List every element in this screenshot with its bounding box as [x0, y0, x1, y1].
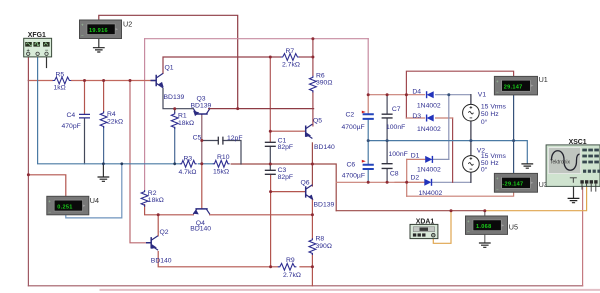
svg-text:R5: R5 [56, 71, 65, 78]
wire scope ground stub [573, 187, 575, 198]
wire D3 AC2 column x452.6 [452, 118, 454, 182]
voltmeter U5 [466, 216, 508, 234]
wire pink highlight bottom [101, 289, 600, 291]
wire D3 left end [406, 117, 424, 119]
voltmeter U4 [47, 196, 89, 215]
transistor Q1 [151, 73, 164, 87]
transistor Q2 [146, 236, 158, 250]
wire D1 cathode column x448.8 [448, 95, 450, 160]
svg-text:22kΩ: 22kΩ [107, 118, 123, 125]
wire output column top Q5 emitter to Q6 collector [311, 143, 313, 186]
svg-text:−: − [496, 187, 499, 192]
svg-text:R8: R8 [316, 236, 325, 243]
capacitor C5 [218, 137, 223, 145]
wire V2 top stub [470, 141, 472, 155]
wire U4 feed red [28, 175, 65, 197]
svg-text:−: − [467, 229, 470, 234]
capacitor C8 [382, 164, 393, 169]
wire C6 top lead [367, 141, 369, 165]
svg-text:XSC1: XSC1 [569, 139, 587, 146]
transistor Q3 rotated [193, 109, 209, 115]
wire R6R7 column x312.9 [312, 39, 314, 76]
wire C4 drop [84, 81, 86, 114]
svg-text:2.7kΩ: 2.7kΩ [282, 62, 300, 69]
wire R1 bottom lead [174, 127, 176, 164]
resistor R1 [171, 112, 178, 129]
svg-text:82pF: 82pF [278, 174, 294, 181]
wire Q3 base stem x201.8 [201, 115, 203, 164]
ground on bus [98, 177, 110, 181]
wire C2 bottom lead [367, 120, 369, 141]
wire Q5 base line y131.2 [270, 130, 305, 132]
wire U2 ground stub [98, 39, 100, 48]
diode D3 [427, 115, 434, 122]
wire bottom feedback y285.8 [28, 285, 582, 287]
svg-text:C4: C4 [67, 112, 76, 119]
svg-text:1N4002: 1N4002 [417, 167, 441, 174]
wire V1 top stub [470, 95, 472, 105]
capacitor C3 [265, 170, 276, 174]
svg-text:BD139: BD139 [314, 202, 335, 209]
wire Q6 emitter down to R8 [311, 199, 313, 239]
resistor R4 [100, 111, 107, 128]
wire U3 minus line y196.2 [407, 192, 514, 196]
wire output line orange segment [485, 186, 587, 211]
svg-text:+: + [48, 199, 51, 204]
wire C8 top lead [386, 141, 388, 164]
wire D1 right to column [432, 158, 448, 160]
svg-text:D2: D2 [411, 175, 420, 182]
svg-text:+: + [496, 176, 499, 181]
svg-text:4.7kΩ: 4.7kΩ [179, 169, 197, 176]
svg-text:0.251: 0.251 [57, 204, 72, 210]
svg-text:470pF: 470pF [62, 123, 81, 130]
wire U1 bottom to center tap [513, 95, 515, 141]
diode D2 [424, 179, 431, 186]
wire D4 anode to V1 top [436, 94, 471, 96]
svg-text:+: + [467, 219, 470, 224]
ground U5 [479, 243, 491, 247]
wire D2 cathode to V2 bottom [432, 181, 471, 183]
svg-text:Q2: Q2 [160, 229, 169, 236]
wire input line y80.5 [28, 80, 52, 82]
svg-text:12pF: 12pF [227, 135, 243, 142]
svg-text:18kΩ: 18kΩ [178, 120, 194, 127]
resistor R7 [281, 54, 300, 61]
diode D1 [425, 156, 432, 163]
resistor R9 [278, 263, 297, 270]
svg-text:R2: R2 [148, 190, 157, 197]
diode D4 [427, 91, 434, 98]
svg-text:U4: U4 [90, 196, 99, 205]
svg-text:BD140: BD140 [314, 144, 335, 151]
wire Q6 base line y191.6 [271, 191, 306, 193]
svg-text:XDA1: XDA1 [416, 219, 435, 226]
ground under U2 [93, 48, 105, 52]
wire XFG minus stub [46, 55, 48, 67]
wire Q4 base stem x201.8 [201, 164, 203, 209]
wire R9 right to R8 bottom [300, 266, 312, 268]
svg-text:19.916: 19.916 [89, 28, 108, 34]
svg-text:BD140: BD140 [151, 258, 172, 265]
resistor R10 [213, 160, 230, 167]
wire C7 top lead [386, 95, 388, 114]
svg-text:15kΩ: 15kΩ [213, 168, 229, 175]
resistor R2 [141, 190, 148, 207]
wire C2 top lead [367, 95, 369, 115]
wire D1 anode down to U3 line [406, 159, 408, 196]
wire output line y210.7 [336, 210, 485, 212]
svg-text:R4: R4 [107, 111, 116, 118]
distortion analyzer XDA1 [410, 224, 438, 238]
wire C8 bottom lead [386, 169, 388, 183]
wire U4 return blue [66, 164, 122, 218]
wire Q2 collector stub [157, 215, 159, 236]
wire Q4 right line to Q6 emitter [210, 214, 313, 216]
svg-text:R3: R3 [184, 156, 193, 163]
wire Q2 base feed x130 [130, 81, 151, 243]
voltmeter U3 [494, 173, 537, 192]
svg-text:Q5: Q5 [313, 117, 322, 124]
svg-text:18kΩ: 18kΩ [148, 197, 164, 204]
ground scope [568, 198, 580, 202]
resistor R8 [309, 238, 316, 255]
svg-text:50 Hz: 50 Hz [481, 111, 499, 118]
svg-text:D1: D1 [411, 152, 420, 159]
ground center tap [521, 164, 533, 168]
wire R8 bottom to bottom rail [311, 254, 313, 286]
svg-text:BD139: BD139 [164, 94, 185, 101]
wire R6 bottom to rail [312, 91, 314, 126]
svg-text:Tektronix: Tektronix [550, 160, 571, 166]
wire C5 left lead [202, 140, 218, 142]
wire C4 bottom lead [84, 119, 86, 164]
wire V2 bottom stub [470, 173, 472, 182]
svg-text:U1: U1 [539, 75, 548, 84]
source V2 [463, 156, 480, 173]
voltmeter U2 [80, 20, 122, 39]
svg-text:0°: 0° [481, 165, 488, 173]
svg-text:2.7kΩ: 2.7kΩ [283, 272, 301, 279]
svg-text:4700µF: 4700µF [342, 172, 365, 179]
wire C7 bottom lead [386, 118, 388, 140]
wire R4 bottom lead [103, 127, 105, 164]
wire input line right of R5 [71, 80, 155, 82]
wire D3 right to column [436, 117, 453, 119]
svg-text:R7: R7 [286, 48, 295, 55]
svg-text:D3: D3 [412, 113, 421, 120]
wire Q3 collector rail y108.6 [209, 108, 314, 110]
svg-text:R1: R1 [178, 113, 187, 120]
wire D1 line [407, 158, 425, 160]
wire bus R3 to R10 [198, 163, 213, 165]
wire XFG plus stub [27, 55, 29, 80]
wire Q2 emitter to R9 y266.8 [158, 252, 278, 267]
transistor Q4 rotated [193, 209, 209, 215]
transistor Q5 [306, 124, 313, 138]
wire +rail drop to C2 x368.2 [367, 39, 369, 95]
wire R2 bottom to Q4 base y214.8 [145, 205, 194, 215]
wire U5 bottom stub [484, 234, 486, 242]
capacitor C1 [265, 142, 276, 146]
wire bus right of R10 to corner [231, 164, 336, 211]
wire R4 drop [103, 81, 105, 112]
wire R1 top stub [174, 109, 176, 113]
wire U5 top stub [484, 211, 486, 216]
svg-text:BD139: BD139 [191, 102, 212, 109]
resistor R6 [310, 76, 317, 93]
svg-text:D4: D4 [412, 88, 421, 95]
voltmeter U1 [494, 76, 537, 95]
function generator XFG1 [24, 38, 52, 57]
svg-text:U5: U5 [509, 222, 518, 231]
capacitor C2 polarized [362, 111, 374, 119]
svg-text:−: − [48, 209, 51, 214]
svg-text:82pF: 82pF [278, 144, 294, 151]
wire Q1 emitter to Q3 y108.7 [163, 89, 193, 109]
svg-text:1N4002: 1N4002 [417, 103, 441, 110]
svg-text:XFG1: XFG1 [28, 32, 46, 39]
source V1 [463, 104, 480, 121]
svg-text:R10: R10 [217, 154, 230, 161]
resistor R3 [180, 160, 197, 167]
svg-text:100nF: 100nF [389, 151, 408, 158]
wire D2 left end [395, 181, 424, 183]
svg-text:R9: R9 [286, 257, 295, 264]
wire V1 bottom stub [470, 121, 472, 141]
svg-text:390Ω: 390Ω [316, 243, 332, 250]
svg-text:+: + [81, 23, 84, 28]
wire left feedback x28.4 [27, 81, 29, 286]
wire C1 C3 midpoint [269, 146, 271, 170]
svg-text:C6: C6 [347, 162, 356, 169]
svg-text:Q1: Q1 [165, 65, 174, 72]
svg-text:0°: 0° [481, 118, 488, 126]
wire R7 right to column [300, 56, 313, 58]
capacitor C6 polarized [362, 160, 374, 169]
svg-text:R6: R6 [316, 72, 325, 79]
svg-text:C8: C8 [390, 170, 399, 177]
wire C5 right lead [223, 141, 241, 165]
wire +rail pink y38.7 [145, 38, 369, 40]
svg-text:29.147: 29.147 [504, 84, 523, 90]
wire bus ground stub [102, 164, 104, 177]
svg-text:C2: C2 [346, 112, 355, 119]
oscilloscope XSC1 [546, 145, 600, 192]
svg-text:Q6: Q6 [301, 179, 310, 186]
svg-text:BD140: BD140 [190, 226, 211, 233]
wire U2 top to node vertical x238 [99, 15, 238, 108]
svg-text:100nF: 100nF [386, 124, 405, 131]
svg-text:1N4002: 1N4002 [419, 190, 443, 197]
wire scope B column x582.6 [582, 186, 584, 286]
wire C1 column x270.3 [269, 57, 271, 142]
wire U3 top to center tap [513, 141, 515, 174]
svg-text:4700µF: 4700µF [342, 124, 365, 131]
svg-text:1.068: 1.068 [476, 224, 492, 230]
svg-text:−: − [81, 33, 84, 38]
svg-text:390Ω: 390Ω [316, 79, 332, 86]
capacitor C7 [382, 114, 393, 118]
resistor R5 [53, 77, 72, 84]
wire Q1 collector y57 [163, 57, 281, 73]
svg-text:C7: C7 [392, 106, 401, 113]
transistor Q6 [306, 185, 313, 199]
wire minus rail y182.3 [336, 181, 424, 183]
svg-text:−: − [496, 89, 499, 94]
svg-text:V1: V1 [478, 91, 487, 98]
svg-text:C5: C5 [193, 135, 202, 142]
wire ground bus blue y163.8 [38, 55, 180, 164]
svg-text:15 Vrms: 15 Vrms [481, 103, 507, 110]
svg-text:U2: U2 [123, 19, 132, 28]
capacitor C4 [79, 114, 90, 118]
wire feedback pink x144.6 down to R2 [144, 39, 146, 190]
wire plus rect rail y94.7 [368, 94, 424, 96]
svg-text:+: + [496, 79, 499, 84]
svg-text:1N4002: 1N4002 [417, 126, 441, 133]
svg-text:1kΩ: 1kΩ [54, 85, 66, 92]
wire XDA1 orange link [433, 211, 451, 244]
wire center tap blue y140.6 [368, 141, 527, 164]
wire U1 feed from rail [406, 71, 513, 118]
wire C3 bottom column x270.9 [270, 174, 272, 266]
wire C6 bottom lead [367, 169, 369, 182]
svg-text:-29.147: -29.147 [502, 182, 523, 188]
